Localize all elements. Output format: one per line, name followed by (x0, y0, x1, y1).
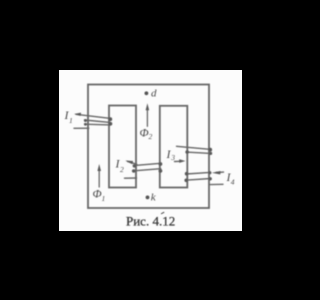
white scanned page area (59, 70, 242, 231)
caption Fig 4.12 (126, 212, 175, 228)
winding W3 turns on right leg (177, 146, 213, 155)
current arrow I3 (175, 159, 186, 163)
winding W2 turns on center leg (132, 162, 162, 173)
core outer outline (88, 85, 209, 209)
flux arrow Phi1 (97, 164, 101, 187)
node d (145, 91, 149, 95)
winding W1 lead with current arrow I1 (74, 113, 109, 129)
node k (146, 196, 150, 200)
winding W1 turns on left leg (84, 117, 112, 125)
label I3 (166, 147, 176, 162)
svg-text:3: 3 (170, 153, 175, 162)
left window (109, 106, 136, 188)
label I2 (115, 157, 125, 175)
winding W2 lead with current arrow I2 (125, 159, 137, 178)
label Phi2 (140, 126, 153, 141)
svg-text:4: 4 (231, 178, 235, 187)
label node d (151, 88, 157, 100)
label I1 (64, 108, 73, 125)
svg-text:2: 2 (149, 132, 153, 141)
svg-text:Φ: Φ (140, 126, 149, 140)
label node k (151, 192, 157, 204)
svg-text:1: 1 (69, 116, 73, 125)
winding W4 lead with current arrow I4 (210, 171, 224, 185)
label Phi1 (93, 187, 106, 204)
svg-text:1: 1 (102, 194, 106, 203)
winding W4 turns on right leg (184, 171, 212, 182)
svg-text:Рис. 4.12: Рис. 4.12 (126, 213, 175, 228)
flux arrow Phi2 (146, 103, 150, 126)
right window (160, 106, 188, 188)
svg-text:2: 2 (120, 165, 124, 174)
svg-text:Φ: Φ (93, 187, 102, 201)
svg-text:k: k (151, 192, 157, 204)
svg-text:d: d (151, 88, 157, 100)
label I4 (226, 170, 235, 187)
